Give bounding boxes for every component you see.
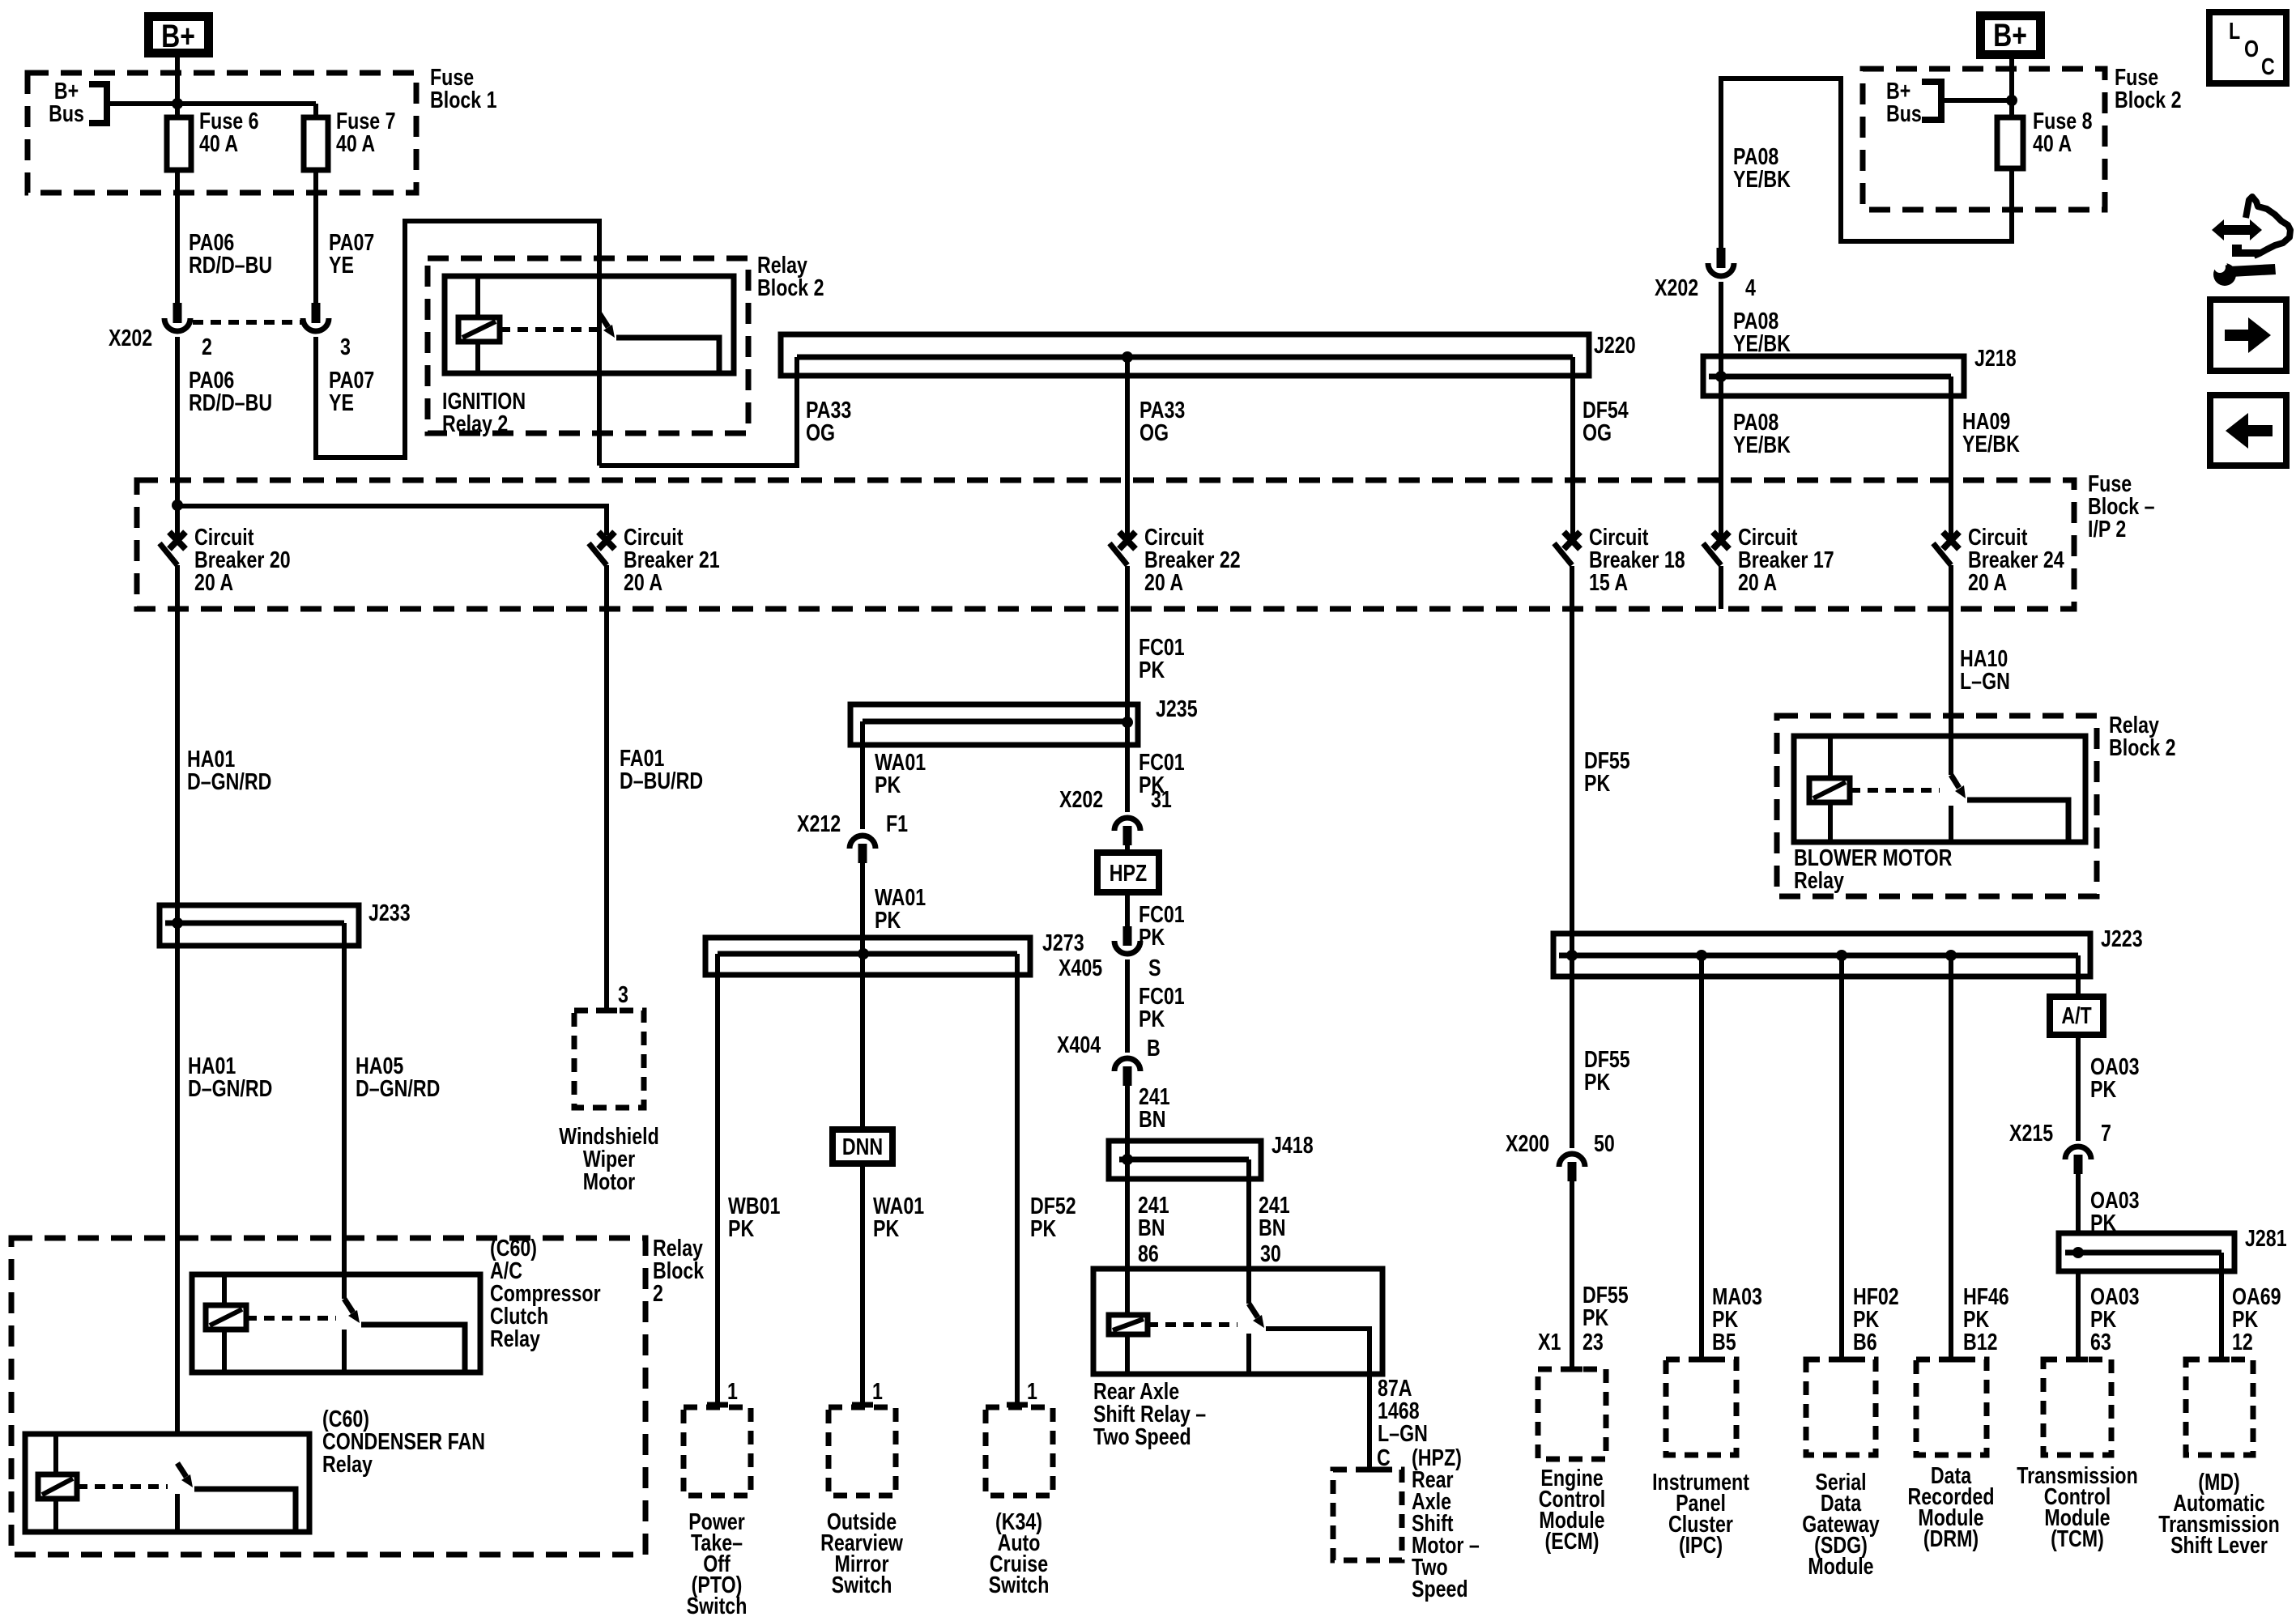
svg-text:40 A: 40 A <box>199 130 238 156</box>
junction on J223 (HF46) <box>1945 950 1957 961</box>
svg-text:YE/BK: YE/BK <box>1733 165 1791 192</box>
svg-text:L: L <box>2229 17 2240 44</box>
wire 241 BN J418 to relay contact 30 <box>1246 1159 1251 1304</box>
junction feed CB20/CB21 <box>172 500 183 511</box>
wire WA01 J235 to X212 <box>860 721 865 829</box>
svg-text:YE/BK: YE/BK <box>1733 431 1791 457</box>
svg-text:X202: X202 <box>1655 274 1698 300</box>
forward arrow box <box>2210 300 2286 371</box>
ignition relay coil wire <box>475 276 480 373</box>
outside rearview mirror switch (dashed box) <box>829 1407 896 1495</box>
junction on J235 <box>1122 717 1133 728</box>
connector X202 pin 4 <box>1717 248 1726 268</box>
fuse block 2 (dashed) <box>1863 69 2105 210</box>
junction on J273 <box>858 948 869 959</box>
svg-text:4: 4 <box>1745 274 1756 300</box>
wire MA03 J223 to IPC <box>1699 955 1704 1359</box>
svg-text:PK: PK <box>1139 923 1165 950</box>
wire DF55 CB18 to X200 <box>1570 566 1574 1148</box>
svg-text:3: 3 <box>340 333 351 360</box>
junction block J223 <box>1553 934 2090 976</box>
A/C relay switch arm <box>344 1299 353 1313</box>
wire below circuit breaker 17 <box>1719 566 1723 609</box>
circuit breaker 20 <box>169 532 185 549</box>
terminal tick shift motor <box>1359 1467 1380 1473</box>
relay block 2 (dashed, bottom left) <box>11 1238 645 1555</box>
svg-text:YE/BK: YE/BK <box>1733 330 1791 356</box>
wire PA08 J218 to circuit breaker 17 <box>1719 377 1723 540</box>
svg-text:YE: YE <box>329 251 354 278</box>
junction on J223 (DF55) <box>1566 950 1578 961</box>
svg-text:PK: PK <box>1030 1215 1056 1241</box>
wire OA03 X215 to J281 <box>2076 1174 2081 1233</box>
wire HF46 J223 to DRM <box>1949 955 1953 1359</box>
svg-text:HPZ: HPZ <box>1110 859 1147 886</box>
junction block J418 <box>1109 1141 1261 1179</box>
svg-text:L–GN: L–GN <box>1378 1419 1428 1446</box>
wire HA05 J233 to A/C relay <box>342 923 347 1274</box>
A/C relay contact <box>361 1325 465 1372</box>
wire PA06 to circuit breaker 20 <box>175 337 180 540</box>
svg-text:Block 2: Block 2 <box>757 274 824 300</box>
svg-text:20 A: 20 A <box>1968 568 2007 595</box>
rear axle relay contact to motor <box>1266 1329 1370 1470</box>
condenser fan relay lower stub <box>175 1494 180 1532</box>
svg-text:PK: PK <box>2090 1075 2116 1102</box>
terminal tick serial data gateway module (dashed box) <box>1830 1357 1851 1363</box>
svg-text:OG: OG <box>806 419 835 445</box>
windshield wiper motor (dashed box) <box>574 1010 644 1108</box>
circuit breaker 17 <box>1713 532 1729 549</box>
circuit breaker 24 <box>1943 532 1959 549</box>
wire PA06 above X202-2 <box>175 170 180 303</box>
terminal tick PTO <box>707 1402 728 1408</box>
A/C relay common lower stub <box>342 1330 347 1372</box>
wire to HPZ <box>1125 845 1130 853</box>
svg-text:F1: F1 <box>886 810 908 836</box>
rear axle shift relay box <box>1093 1269 1382 1374</box>
svg-text:J418: J418 <box>1272 1131 1314 1158</box>
A/C relay coil <box>206 1305 246 1330</box>
svg-text:Relay: Relay <box>1794 866 1844 893</box>
svg-text:D–GN/RD: D–GN/RD <box>188 1074 272 1101</box>
data recorded module (dashed box) <box>1916 1359 1987 1455</box>
automatic transmission shift lever (dashed box) <box>2186 1359 2253 1455</box>
svg-text:J235: J235 <box>1156 695 1198 721</box>
junction block J235 <box>850 704 1138 745</box>
wire HF02 J223 to SDG <box>1839 955 1844 1359</box>
ignition relay 2 box <box>445 276 734 373</box>
svg-text:RD/D–BU: RD/D–BU <box>189 389 272 415</box>
condenser fan relay contact <box>194 1489 296 1532</box>
svg-text:BN: BN <box>1259 1214 1286 1240</box>
svg-text:OG: OG <box>1582 419 1612 445</box>
wire PA33 J220 to circuit breaker 22 <box>1125 357 1130 540</box>
wire: ignition relay output to J220 <box>599 357 797 466</box>
svg-text:BN: BN <box>1139 1105 1166 1132</box>
svg-text:PK: PK <box>873 1215 899 1241</box>
svg-text:15 A: 15 A <box>1589 568 1628 595</box>
svg-text:B+: B+ <box>161 18 195 54</box>
terminal tick at wiper motor <box>596 1008 617 1014</box>
svg-text:Relay: Relay <box>322 1450 373 1477</box>
condenser fan relay coil wire <box>53 1434 58 1532</box>
svg-text:J218: J218 <box>1974 344 2017 371</box>
blower motor relay box <box>1794 736 2085 842</box>
svg-text:PK: PK <box>1582 1304 1608 1330</box>
svg-text:7: 7 <box>2101 1119 2111 1146</box>
wire HA01 CB20 down to condenser fan relay <box>175 565 180 1434</box>
rear axle shift motor (dashed box) <box>1333 1470 1402 1560</box>
rear axle relay coil <box>1109 1315 1148 1334</box>
wire WA01 DNN to mirror switch <box>860 1164 865 1405</box>
svg-text:12: 12 <box>2232 1328 2253 1355</box>
blower relay contact <box>1967 800 2068 842</box>
DNN splice box <box>833 1130 892 1164</box>
svg-text:Block 2: Block 2 <box>2109 734 2175 760</box>
svg-text:63: 63 <box>2090 1328 2111 1355</box>
wire DF52 J273 to cruise switch <box>1015 954 1020 1405</box>
svg-text:PK: PK <box>875 906 901 933</box>
B+ power symbol (right) <box>1981 16 2041 55</box>
terminal tick mirror <box>852 1402 873 1408</box>
svg-text:D–GN/RD: D–GN/RD <box>187 768 271 794</box>
svg-text:YE: YE <box>329 389 354 415</box>
wire HA09 J218 to circuit breaker 24 <box>1949 377 1953 540</box>
svg-text:Switch: Switch <box>832 1571 892 1598</box>
condenser fan relay switch arm <box>177 1463 186 1477</box>
svg-text:(DRM): (DRM) <box>1923 1525 1979 1551</box>
connector X405 pin S <box>1123 926 1132 946</box>
wire bracket to fuse 8 <box>1941 98 2012 103</box>
svg-text:X405: X405 <box>1059 954 1102 981</box>
svg-text:RD/D–BU: RD/D–BU <box>189 251 272 278</box>
junction block J233 <box>160 905 359 946</box>
wire 241 BN X404 to rear axle relay <box>1125 1086 1130 1269</box>
wire PA08 fuse 8 to X202-4 <box>1721 79 2012 248</box>
connector X215 pin 7 <box>2065 1147 2091 1159</box>
svg-text:B12: B12 <box>1963 1328 1998 1355</box>
junction on J218 <box>1715 371 1727 382</box>
svg-text:L–GN: L–GN <box>1960 667 2010 694</box>
wire below HPZ <box>1125 892 1130 926</box>
wire FC01 CB22 to X202-31 <box>1125 566 1130 812</box>
svg-text:Switch: Switch <box>687 1592 748 1617</box>
condenser fan relay coil <box>38 1474 77 1499</box>
rear axle relay coil wire <box>1125 1269 1130 1374</box>
junction on J223 (HF02) <box>1836 950 1847 961</box>
svg-text:40 A: 40 A <box>336 130 375 156</box>
svg-text:30: 30 <box>1260 1240 1281 1266</box>
junction B+ bus (right) <box>2006 95 2017 106</box>
terminal tick ECM <box>1561 1367 1582 1372</box>
condenser fan relay box <box>25 1434 309 1532</box>
svg-text:Bus: Bus <box>49 100 84 126</box>
B+ bus bracket <box>89 84 107 123</box>
svg-text:1: 1 <box>727 1377 738 1404</box>
svg-text:Switch: Switch <box>989 1571 1050 1598</box>
svg-text:23: 23 <box>1582 1328 1604 1355</box>
connector X200 pin 50 <box>1559 1154 1585 1167</box>
wire DF54 J220 to circuit breaker 18 <box>1570 357 1575 540</box>
svg-text:X1: X1 <box>1538 1328 1561 1355</box>
svg-text:Module: Module <box>1808 1552 1873 1579</box>
terminal tick automatic transmission shift lever (dashed box) <box>2209 1357 2230 1363</box>
junction on J220 <box>1122 351 1133 363</box>
ignition relay contact <box>616 338 719 373</box>
rear axle relay actuation (dashed) <box>1148 1322 1237 1327</box>
wire PA07 to ignition relay 2 <box>316 221 599 457</box>
svg-text:C: C <box>2261 53 2275 79</box>
HPZ splice box <box>1097 853 1159 892</box>
serial data gateway module (dashed box) <box>1806 1359 1876 1455</box>
svg-text:PK: PK <box>1139 1005 1165 1032</box>
svg-text:31: 31 <box>1151 785 1172 812</box>
junction block J220 <box>781 334 1589 376</box>
svg-text:PK: PK <box>875 771 901 798</box>
svg-text:Speed: Speed <box>1412 1575 1468 1602</box>
wire: B+ to fuse 6 <box>175 57 180 117</box>
svg-text:Relay 2: Relay 2 <box>442 410 508 436</box>
connector X202 pin 31 <box>1114 818 1140 831</box>
rear axle relay switch arm <box>1249 1304 1258 1317</box>
svg-text:20 A: 20 A <box>1144 568 1183 595</box>
circuit breaker 21 <box>598 532 615 549</box>
svg-text:86: 86 <box>1138 1240 1159 1266</box>
svg-text:20 A: 20 A <box>624 568 662 595</box>
svg-text:D–BU/RD: D–BU/RD <box>620 767 703 793</box>
connector X212 pin F1 <box>850 836 875 849</box>
back arrow box <box>2210 395 2286 466</box>
ignition relay actuation (dashed) <box>500 327 599 332</box>
relay block 2 (dashed, ignition) <box>428 258 748 433</box>
junction on J233 <box>172 917 183 929</box>
svg-text:X212: X212 <box>797 810 841 836</box>
svg-text:I/P 2: I/P 2 <box>2088 515 2126 542</box>
fuse block 1 (dashed) <box>28 73 416 193</box>
terminal tick instrument panel cluster (dashed box) <box>1690 1357 1711 1363</box>
LOC reference box <box>2209 12 2286 83</box>
svg-text:B5: B5 <box>1712 1328 1736 1355</box>
svg-text:(TCM): (TCM) <box>2051 1525 2104 1551</box>
wire: drop to fuse 7 <box>313 104 318 117</box>
wire WA01 X212 to DNN <box>860 863 865 1130</box>
svg-text:Motor: Motor <box>583 1168 635 1194</box>
svg-text:Block 2: Block 2 <box>2115 86 2181 113</box>
terminal tick transmission control module (dashed box) <box>2067 1357 2088 1363</box>
connector X404 pin B <box>1114 1058 1140 1071</box>
instrument panel cluster (dashed box) <box>1666 1359 1736 1455</box>
wire PA08 X202-4 to J218 <box>1719 282 1723 377</box>
condenser fan relay actuation (dashed) <box>77 1484 168 1489</box>
connector X202 pin 3 <box>312 303 321 323</box>
junction: B+ bus <box>172 98 183 109</box>
fuse 6 <box>167 117 191 170</box>
circuit breaker 22 <box>1119 532 1135 549</box>
wire to circuit breaker 21 <box>177 506 607 535</box>
svg-text:1: 1 <box>872 1377 883 1404</box>
svg-text:J273: J273 <box>1042 929 1084 955</box>
svg-text:D–GN/RD: D–GN/RD <box>356 1074 440 1101</box>
ignition relay coil <box>458 317 500 342</box>
svg-text:2: 2 <box>653 1279 663 1306</box>
junction block J273 <box>705 938 1030 975</box>
svg-text:3: 3 <box>618 981 628 1007</box>
ignition relay switch arm <box>599 313 608 327</box>
blower relay coil wire <box>1828 736 1833 842</box>
blower relay switch arm <box>1951 775 1959 788</box>
svg-text:50: 50 <box>1594 1130 1615 1156</box>
blower relay lower stub <box>1949 806 1953 842</box>
wire OA03 J223 to A/T box <box>2076 955 2081 997</box>
svg-text:PK: PK <box>1584 769 1610 796</box>
blower relay coil <box>1809 778 1850 802</box>
wire FC01 X405 to X404 <box>1125 959 1130 1053</box>
rear axle relay lower stub <box>1246 1334 1251 1374</box>
svg-text:J281: J281 <box>2245 1224 2287 1251</box>
junction on J223 (MA03) <box>1696 950 1707 961</box>
wire B+ to fuse 8 <box>2009 59 2014 117</box>
svg-text:20 A: 20 A <box>194 568 233 595</box>
B+ power symbol (left) <box>149 17 209 53</box>
fuse 7 <box>304 117 328 170</box>
wire WB01 J273 to PTO switch <box>715 954 720 1405</box>
svg-text:PK: PK <box>1139 656 1165 683</box>
svg-text:J223: J223 <box>2101 925 2143 951</box>
svg-text:1: 1 <box>1027 1377 1037 1404</box>
svg-text:Bus: Bus <box>1886 100 1922 126</box>
connector X202 pin 2 <box>173 303 182 323</box>
ignition relay common <box>597 276 602 466</box>
terminal tick cruise <box>1007 1402 1028 1408</box>
svg-text:(ECM): (ECM) <box>1545 1527 1600 1554</box>
B+ bus bracket (right) <box>1922 82 1941 120</box>
blower relay actuation (dashed) <box>1850 788 1940 793</box>
auto cruise switch (dashed box) <box>986 1407 1053 1495</box>
svg-text:A/T: A/T <box>2061 1002 2091 1028</box>
relay block 2 (dashed, blower) <box>1777 716 2097 896</box>
svg-text:YE/BK: YE/BK <box>1962 430 2020 457</box>
svg-text:(IPC): (IPC) <box>1679 1531 1723 1558</box>
svg-text:20 A: 20 A <box>1738 568 1777 595</box>
svg-text:BN: BN <box>1138 1214 1165 1240</box>
svg-text:O: O <box>2244 35 2259 62</box>
power take-off switch (dashed box) <box>684 1407 751 1495</box>
wire: B+ bus to fuse 7 <box>107 101 316 106</box>
svg-text:X200: X200 <box>1506 1130 1549 1156</box>
X202 mating line (dashed) <box>193 320 301 325</box>
wire OA03 J281 to TCM <box>2076 1271 2081 1359</box>
junction on J281 <box>2072 1247 2084 1258</box>
circuit breaker 18 <box>1564 532 1580 549</box>
wire HA10 CB24 to blower relay <box>1949 565 1953 775</box>
svg-text:J233: J233 <box>368 899 411 925</box>
A/C compressor clutch relay box <box>192 1274 480 1372</box>
svg-text:B: B <box>1147 1034 1161 1061</box>
wire OA03 A/T to X215 <box>2076 1035 2081 1141</box>
svg-text:J220: J220 <box>1594 331 1636 358</box>
svg-text:X215: X215 <box>2009 1119 2053 1146</box>
svg-text:OG: OG <box>1139 419 1169 445</box>
svg-text:X202: X202 <box>109 324 152 351</box>
wire FA01 CB21 to windshield wiper motor <box>604 565 609 1010</box>
svg-text:X404: X404 <box>1057 1031 1101 1057</box>
A/C relay common stub <box>342 1274 347 1299</box>
fuse 8 <box>1997 117 2023 168</box>
svg-text:DNN: DNN <box>842 1133 883 1159</box>
junction on J418 <box>1122 1154 1133 1165</box>
junction block J218 <box>1703 356 1964 396</box>
junction block J281 <box>2059 1233 2234 1271</box>
wire OA69 J281 to shift lever <box>2219 1253 2224 1359</box>
svg-text:S: S <box>1148 954 1161 981</box>
svg-text:X202: X202 <box>1059 785 1103 812</box>
svg-text:Relay: Relay <box>490 1325 540 1351</box>
svg-text:B6: B6 <box>1853 1328 1877 1355</box>
terminal tick data recorded module (dashed box) <box>1940 1357 1962 1363</box>
svg-text:40 A: 40 A <box>2033 130 2072 156</box>
A/C relay coil wire <box>222 1274 227 1372</box>
svg-text:PK: PK <box>728 1215 754 1241</box>
svg-text:Block 1: Block 1 <box>430 86 496 113</box>
transmission control module (dashed box) <box>2043 1359 2111 1455</box>
wire PA07 above X202-3 <box>313 170 318 303</box>
engine control module (dashed box) <box>1538 1369 1606 1459</box>
diagnostic icon: double arrow, outline, wrench <box>2212 219 2262 240</box>
svg-text:B+: B+ <box>1993 17 2027 53</box>
A/C relay actuation (dashed) <box>246 1316 336 1321</box>
fuse block I/P 2 (dashed) <box>137 480 2074 609</box>
wire DF55 X200 to ECM <box>1570 1181 1574 1369</box>
A/T option box <box>2050 997 2103 1035</box>
svg-text:Shift Lever: Shift Lever <box>2170 1531 2268 1558</box>
svg-text:Two Speed: Two Speed <box>1093 1423 1191 1449</box>
svg-text:PK: PK <box>1584 1068 1610 1095</box>
svg-text:2: 2 <box>202 333 212 360</box>
